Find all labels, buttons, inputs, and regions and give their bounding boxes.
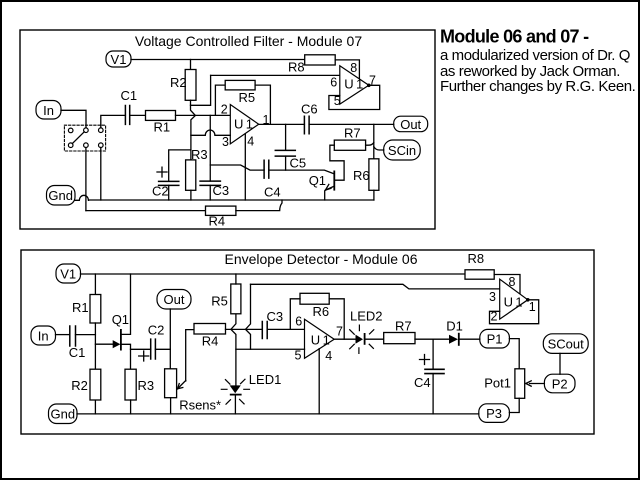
wire pin4 vertical to ground bus <box>244 134 246 200</box>
capacitor C2 plates (bottom) <box>151 339 156 359</box>
wire C3 vertical from main row <box>209 115 211 181</box>
wire pin1 loop to pin2 <box>490 300 539 324</box>
wire R8 to op-amp pin8 <box>335 60 359 79</box>
svg-text:R3: R3 <box>191 147 208 162</box>
wire Q1 source down to R3 <box>121 344 131 369</box>
svg-text:Envelope Detector - Module 06: Envelope Detector - Module 06 <box>225 251 418 267</box>
resistor R3 <box>186 160 196 190</box>
wire V1 row (bottom) <box>81 273 466 275</box>
svg-text:4: 4 <box>325 349 332 363</box>
wire pin4 down to bus <box>318 349 320 414</box>
wire pin3-feed jog crossing down to pin5 row <box>246 284 251 349</box>
svg-text:Rsens*: Rsens* <box>179 398 221 413</box>
LED1 diode <box>230 385 241 393</box>
svg-text:2: 2 <box>221 102 228 116</box>
svg-text:Further changes by R.G. Keen.: Further changes by R.G. Keen. <box>440 78 635 95</box>
wire pin3 feed row to right op-amp <box>251 284 500 289</box>
resistor R5 (bottom) <box>231 284 241 314</box>
LED2 diode <box>356 335 364 344</box>
svg-text:R6: R6 <box>313 304 330 319</box>
transistor Q1 emitter with arrow <box>325 186 335 200</box>
transistor Q1 base bar <box>333 171 335 189</box>
svg-text:P1: P1 <box>487 332 503 347</box>
wire R5 bottom jog crossing to LED1 and bus <box>231 314 236 386</box>
wire C2 bottom to bus <box>168 185 170 200</box>
wire Gnd with hop over switch vertical <box>75 195 89 200</box>
wire V1 row <box>131 59 305 61</box>
svg-text:LED2: LED2 <box>350 309 383 324</box>
wire R2 bottom stub <box>191 75 211 105</box>
capacitor C4 plates <box>264 160 269 178</box>
wire R5 top to V1 row <box>235 274 237 284</box>
wire Out node down to R6 <box>373 124 375 158</box>
svg-text:R6: R6 <box>353 168 370 183</box>
capacitor C6 plates <box>304 116 309 134</box>
svg-text:R4: R4 <box>202 333 219 348</box>
svg-text:5: 5 <box>334 94 341 108</box>
wire pin6 row to op-amp U1b <box>211 74 340 76</box>
ground bus <box>89 199 374 201</box>
wire In to switch <box>61 110 86 127</box>
svg-text:R5: R5 <box>239 90 256 105</box>
wire pin2 node up to R5 left <box>215 85 225 115</box>
svg-text:C3: C3 <box>267 309 284 324</box>
potentiometer Rsens box <box>165 369 177 398</box>
op-amp U1b triangle <box>340 66 369 104</box>
wire P1 right to Pot1 <box>509 339 519 369</box>
wire C1 left to switch <box>101 115 126 127</box>
svg-text:D1: D1 <box>446 319 463 334</box>
wire C2 to Out vertical <box>155 348 170 350</box>
resistor R6 (bottom) <box>300 293 329 304</box>
switch dotted box <box>64 125 105 151</box>
module 06 box frame <box>21 250 594 434</box>
svg-text:In: In <box>38 328 49 343</box>
svg-text:P2: P2 <box>552 376 568 391</box>
terminal P2 <box>544 374 575 393</box>
potentiometer Pot1 box <box>515 369 525 399</box>
op-amp U1a triangle <box>230 105 258 144</box>
wire Pot1 bottom to P3 <box>509 398 519 412</box>
wire C1 to R1 <box>130 114 146 116</box>
svg-text:R5: R5 <box>211 294 228 309</box>
svg-text:C4: C4 <box>414 375 431 390</box>
terminal V1 (top) <box>106 51 131 67</box>
svg-text:Q1: Q1 <box>112 312 129 327</box>
wire Out down to Rsens <box>169 309 171 369</box>
svg-text:1: 1 <box>263 113 270 127</box>
svg-text:C5: C5 <box>290 156 307 171</box>
LED1 rays <box>221 379 249 404</box>
module 07 box frame <box>20 30 435 229</box>
wire V1 row to R1 top <box>94 274 96 295</box>
svg-text:P3: P3 <box>486 406 502 421</box>
svg-text:SCin: SCin <box>388 143 416 158</box>
LED2 rays <box>350 325 374 353</box>
wire R3 bottom to bus <box>190 190 192 200</box>
wire C4 row from C3 vertical with jog over pin4 <box>210 165 264 170</box>
wire SCin jog to vertical <box>374 147 384 151</box>
svg-text:C1: C1 <box>69 345 86 360</box>
wire R4 left with wiper arrow to Rsens <box>186 330 194 381</box>
resistor R6 <box>369 159 379 191</box>
svg-text:7: 7 <box>336 325 343 339</box>
svg-text:C6: C6 <box>301 102 318 117</box>
resistor R2 (bottom) <box>90 369 101 400</box>
capacitor C1 plates <box>125 106 129 125</box>
svg-text:C3: C3 <box>213 183 230 198</box>
svg-text:5: 5 <box>295 349 302 363</box>
wire C6 to Out <box>309 123 394 125</box>
svg-text:R2: R2 <box>170 75 187 90</box>
wire Q1 gate row with arrow <box>95 343 113 345</box>
wire D1 to P1 <box>459 338 480 340</box>
svg-text:U 1: U 1 <box>504 294 523 309</box>
wire C4 to Q1 base <box>269 170 335 174</box>
terminal Gnd (bottom) <box>49 404 78 424</box>
resistor R7 (bottom) <box>384 333 415 344</box>
wire R1-R2 vertical <box>94 323 96 369</box>
capacitor C3 plates <box>200 181 220 185</box>
svg-text:U 1: U 1 <box>311 333 330 348</box>
wire R6 loop left <box>290 299 300 330</box>
ground bus (bottom) <box>77 413 479 415</box>
terminal Out (top) <box>394 116 428 132</box>
capacitor C4 plus (bottom) <box>420 355 430 365</box>
svg-text:8: 8 <box>350 61 357 75</box>
wire C2 top branch <box>169 150 191 182</box>
resistor R1 <box>146 111 176 121</box>
svg-text:6: 6 <box>330 76 337 90</box>
svg-text:3: 3 <box>222 135 229 149</box>
wire In row through C1 <box>56 334 70 336</box>
svg-text:R8: R8 <box>468 251 485 266</box>
wire R4 right up to bus jog <box>236 200 282 211</box>
svg-text:C2: C2 <box>148 323 165 338</box>
svg-text:C2: C2 <box>152 184 169 199</box>
wire C5 vertical bottom <box>285 156 287 170</box>
svg-text:R1: R1 <box>154 120 171 135</box>
resistor R8 <box>305 55 336 65</box>
wire main row R1 to op-amp pin2 <box>176 114 231 116</box>
svg-text:7: 7 <box>369 73 376 87</box>
svg-text:8: 8 <box>509 275 516 289</box>
op-amp U1d triangle <box>500 279 528 319</box>
op-amp U1d output dot <box>526 298 530 302</box>
wire C2 row branch <box>131 348 151 350</box>
wire switch mid-bottom to R4 row <box>85 148 87 211</box>
wire SCout down to P2 <box>559 353 561 374</box>
svg-text:In: In <box>43 103 54 118</box>
resistor R7 <box>334 140 365 150</box>
wire switch right-bottom to bus <box>100 148 102 201</box>
wire C3 to op-amp pin6 <box>267 328 304 330</box>
terminal In (bottom) <box>31 326 56 345</box>
svg-text:R7: R7 <box>395 319 412 334</box>
svg-text:Module 06 and 07 -: Module 06 and 07 - <box>440 27 589 47</box>
terminal SCout <box>543 334 588 354</box>
svg-text:R3: R3 <box>138 378 155 393</box>
wire R4 right row to C3 <box>226 328 263 330</box>
svg-text:R1: R1 <box>72 300 89 315</box>
capacitor C2 plus (bottom) <box>139 351 149 361</box>
wire C5 vertical top <box>285 124 287 150</box>
svg-text:Gnd: Gnd <box>48 188 73 203</box>
resistor R8 (bottom) <box>465 270 494 279</box>
svg-text:SCout: SCout <box>548 336 585 351</box>
resistor R4 <box>206 206 236 215</box>
capacitor C3 plates (bottom) <box>262 322 267 339</box>
terminal P3 <box>479 404 510 423</box>
wire output row tip to C6 <box>259 123 305 125</box>
wire R3 bottom to bus <box>130 400 132 414</box>
resistor R3 (bottom) <box>125 369 136 400</box>
switch lever <box>72 132 84 144</box>
capacitor C1 plates (bottom) <box>70 326 76 346</box>
svg-text:4: 4 <box>247 134 254 148</box>
svg-text:1: 1 <box>529 300 536 314</box>
transistor Q1 bar (bottom) <box>120 330 122 350</box>
svg-text:R8: R8 <box>288 60 305 75</box>
wire R4 row <box>86 210 206 212</box>
capacitor C4 plates (bottom) <box>425 369 444 373</box>
wire LED2 to R7 <box>365 338 384 340</box>
svg-text:R7: R7 <box>344 125 361 140</box>
switch contacts <box>68 128 73 133</box>
wire C4 bottom to bus <box>432 374 434 414</box>
wire C4 vertical top <box>432 339 434 369</box>
capacitor C2 plates <box>159 181 179 185</box>
wire LED1 bottom to bus <box>234 395 236 414</box>
terminal P1 <box>480 329 510 348</box>
wire R7 left staircase to Q1 collector <box>330 145 344 180</box>
wire R5 right loop to output row <box>255 85 270 124</box>
svg-text:U 1: U 1 <box>234 116 253 131</box>
svg-text:C4: C4 <box>264 185 281 200</box>
wire V1 to R2 top <box>190 60 192 70</box>
svg-text:Gnd: Gnd <box>51 407 76 422</box>
wire R2 bottom to bus <box>94 400 96 414</box>
wire C3 bottom to bus <box>209 185 211 200</box>
wire Rsens bottom to bus <box>170 398 172 414</box>
terminal SCin (top) <box>384 140 421 160</box>
wire pin3 row with hop over C3 vertical <box>191 130 230 135</box>
wire R7 right jog to vertical <box>366 143 374 146</box>
resistor R5 <box>225 80 255 90</box>
terminal In (top) <box>36 101 61 120</box>
svg-text:Out: Out <box>400 117 421 132</box>
capacitor C5 plates <box>275 150 295 156</box>
wire pin7 loop to pin5 <box>329 85 380 109</box>
op-amp U1b output dot <box>367 84 371 88</box>
svg-text:C1: C1 <box>121 88 138 103</box>
svg-text:R4: R4 <box>209 213 226 228</box>
svg-text:3: 3 <box>489 290 496 304</box>
svg-text:V1: V1 <box>111 52 127 67</box>
wire Q1 drain up to V1 row <box>121 274 131 334</box>
svg-text:Out: Out <box>164 292 185 307</box>
svg-text:2: 2 <box>491 310 498 324</box>
wire P2 wiper arrow to Pot1 <box>530 383 545 385</box>
wire C1 to junction <box>76 334 96 336</box>
svg-text:U 1: U 1 <box>344 76 363 91</box>
svg-text:Q1: Q1 <box>309 173 326 188</box>
capacitor C2 plus <box>157 167 167 177</box>
wire R6 loop right <box>329 299 344 339</box>
svg-text:Voltage Controlled Filter - Mo: Voltage Controlled Filter - Module 07 <box>135 33 362 49</box>
terminal Gnd (top) <box>47 186 76 206</box>
terminal V1 (bottom) <box>56 264 81 283</box>
wire R2 jog crossing main row down to R3 <box>191 105 196 160</box>
terminal Out (bottom) <box>157 290 191 310</box>
resistor R1 (bottom) <box>90 295 101 324</box>
op-amp U1c triangle <box>305 319 335 358</box>
wire pin5 row <box>236 348 305 350</box>
resistor R2 <box>185 70 196 101</box>
wire R7 to D1 <box>415 338 450 340</box>
svg-text:LED1: LED1 <box>249 372 282 387</box>
resistor R4 (bottom) <box>194 324 226 335</box>
svg-text:6: 6 <box>295 315 302 329</box>
svg-text:R2: R2 <box>71 378 88 393</box>
wire R6 bottom to bus <box>373 190 375 200</box>
diode D1 <box>449 335 458 344</box>
svg-text:a modularized version of Dr. Q: a modularized version of Dr. Q <box>440 47 630 64</box>
svg-text:V1: V1 <box>60 266 76 281</box>
svg-text:Pot1: Pot1 <box>484 375 511 390</box>
wire R8 to op-amp pin8 <box>494 275 520 294</box>
wire output row to LED2 <box>334 338 355 340</box>
